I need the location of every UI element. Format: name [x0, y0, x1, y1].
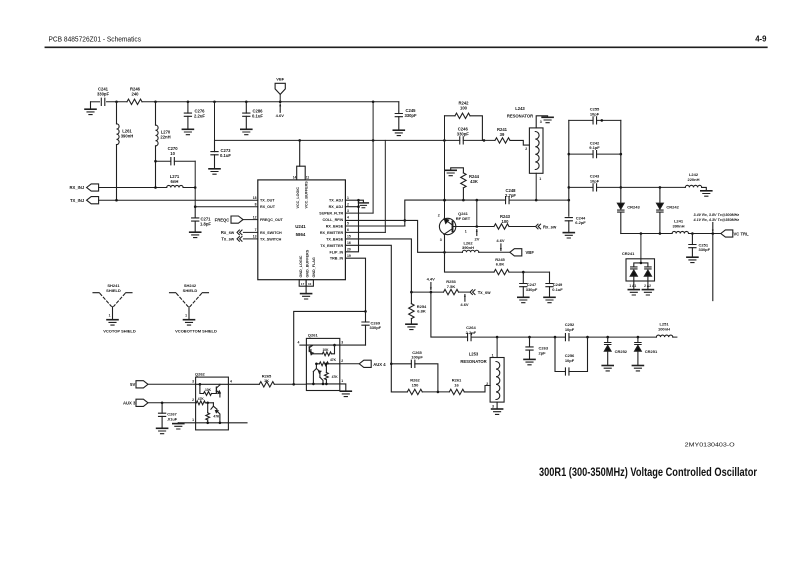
- ground CR241-1: [628, 290, 639, 295]
- annotation voltage arrow: [712, 223, 714, 232]
- svg-text:0.1uF: 0.1uF: [252, 113, 263, 118]
- Q262 internals: [196, 383, 229, 385]
- wire L251 end: [673, 336, 677, 338]
- junction: [298, 139, 301, 142]
- svg-text:43K: 43K: [470, 179, 478, 184]
- junction: [292, 383, 295, 386]
- svg-text:300R1 (300-350MHz) Voltage Con: 300R1 (300-350MHz) Voltage Controlled Os…: [539, 465, 757, 479]
- svg-text:220nH: 220nH: [687, 177, 699, 182]
- junction: [659, 186, 662, 189]
- junction: [279, 101, 282, 104]
- svg-text:2.7pF: 2.7pF: [505, 193, 516, 198]
- svg-text:47K: 47K: [213, 415, 220, 419]
- svg-text:7: 7: [255, 228, 257, 232]
- resistor R243 100: [494, 224, 509, 229]
- svg-text:L243: L243: [515, 106, 525, 111]
- ground C276: [182, 129, 193, 134]
- junction: [404, 219, 407, 222]
- svg-text:3: 3: [440, 238, 442, 242]
- shield SH241: [93, 292, 132, 294]
- svg-text:Rx_sw: Rx_sw: [221, 230, 235, 235]
- ground C245: [393, 130, 404, 135]
- svg-text:3.4V Rx, 3.8V Tx@300MHz: 3.4V Rx, 3.8V Tx@300MHz: [694, 213, 740, 217]
- wire C242 row: [569, 153, 593, 155]
- wire IC pin 6 row: [345, 231, 385, 233]
- resistor R244 43K: [462, 188, 464, 200]
- capacitor C252 10pF: [565, 334, 569, 341]
- wire Q241 collector row: [456, 226, 494, 228]
- inductor L262 390nH: [462, 250, 478, 252]
- wire top rail to C245: [142, 101, 399, 103]
- svg-text:10pF: 10pF: [565, 358, 575, 363]
- ground SH241: [107, 320, 118, 325]
- svg-text:TX_INJ: TX_INJ: [70, 198, 85, 203]
- svg-text:10pF: 10pF: [590, 111, 600, 116]
- ground R244: [445, 170, 456, 175]
- svg-text:5V: 5V: [130, 382, 135, 387]
- svg-text:6.8K: 6.8K: [417, 309, 426, 314]
- capacitor C256 10pF: [565, 368, 569, 375]
- connector AUX 3: [136, 399, 148, 406]
- wire: [569, 336, 656, 338]
- header rule: [45, 46, 766, 48]
- junction: [245, 101, 248, 104]
- wire SUPER_FLTR pin 3 row: [345, 212, 373, 214]
- resonator L253 coil: [496, 362, 500, 400]
- junction: [443, 199, 446, 202]
- junction: [364, 310, 367, 313]
- svg-text:1: 1: [192, 418, 194, 422]
- svg-text:330pF: 330pF: [457, 131, 470, 136]
- svg-text:GND_FLAG: GND_FLAG: [312, 257, 316, 277]
- svg-text:330pF: 330pF: [699, 247, 711, 252]
- capacitor C286 plates: [243, 113, 250, 116]
- wire IC pins 1,2,20 ground tie: [345, 199, 358, 201]
- resistor R242 100 (top arm): [445, 115, 456, 117]
- inductor L242 220nH: [685, 185, 701, 187]
- wire Q261 pin 1 to ground: [340, 384, 346, 391]
- svg-text:GND_BUFFERS: GND_BUFFERS: [305, 249, 309, 277]
- wire R241 to resonator pin 2: [510, 140, 529, 145]
- IC bottom ground pins: [299, 280, 306, 287]
- svg-text:1K: 1K: [264, 378, 269, 383]
- wire COLL_RFIN pin 4 row: [345, 220, 444, 252]
- svg-text:2pF: 2pF: [539, 351, 547, 356]
- capacitor C265 100pF: [411, 360, 415, 367]
- connector Tx_sw chevron: [237, 237, 242, 242]
- resistor R246 240: [127, 99, 142, 104]
- capacitor C245 330pF: [398, 102, 400, 114]
- capacitor C244 6.2pF: [565, 218, 572, 221]
- junction: [443, 139, 446, 142]
- svg-text:47K: 47K: [198, 397, 205, 401]
- inductor L271 6nH coil: [167, 185, 183, 187]
- wire VBF: [279, 94, 281, 101]
- annotation 4.4V arrow: [430, 283, 432, 290]
- wire VCC riser to IC: [299, 140, 301, 166]
- wire C269 to Q261 pin 3: [340, 344, 366, 346]
- svg-text:330pF: 330pF: [526, 287, 538, 292]
- wire: [597, 186, 686, 188]
- wire FREQC_OUT to IC pin 12: [243, 219, 258, 221]
- junction: [357, 205, 360, 208]
- resistor R253 7.5K: [444, 289, 459, 294]
- junction: [659, 232, 662, 235]
- svg-text:SHIELD: SHIELD: [183, 288, 198, 293]
- svg-text:COLL_RFIN: COLL_RFIN: [322, 218, 343, 222]
- junction: [637, 336, 640, 339]
- diode CR242: [659, 187, 661, 203]
- wire: [459, 291, 470, 293]
- wire C270 row: [156, 160, 171, 162]
- svg-text:1: 1: [109, 314, 111, 318]
- svg-text:18: 18: [253, 196, 257, 200]
- svg-text:Tx_sw: Tx_sw: [478, 290, 492, 295]
- svg-text:6: 6: [347, 228, 349, 232]
- svg-text:2.2uF: 2.2uF: [194, 113, 205, 118]
- wire TX_BASE pin 15 row: [345, 239, 411, 292]
- connector VC TRL: [721, 230, 733, 237]
- Q261 47K vertical: [325, 364, 327, 373]
- wire 5V to Q262 pin 3: [148, 383, 196, 385]
- svg-text:4: 4: [347, 215, 349, 219]
- svg-text:390nH: 390nH: [672, 223, 684, 228]
- svg-text:U241: U241: [295, 224, 306, 229]
- junction: [115, 101, 118, 104]
- junction: [206, 402, 209, 405]
- svg-text:4: 4: [230, 380, 232, 384]
- wire AUX3 to Q262 pin 2: [148, 402, 196, 404]
- junction: [430, 291, 433, 294]
- diode CR251: [637, 337, 639, 342]
- capacitor C263 2pF: [529, 337, 531, 347]
- svg-text:100nH: 100nH: [658, 326, 670, 331]
- capacitor C267 .01uF: [161, 403, 163, 413]
- svg-text:SH241: SH241: [107, 283, 120, 288]
- transistor Q241 RF DET: [439, 218, 455, 234]
- connector FREQC: [231, 216, 243, 223]
- svg-text:3: 3: [192, 380, 194, 384]
- svg-text:FREQC: FREQC: [215, 217, 230, 222]
- ground C271: [190, 232, 201, 237]
- resistor R254 zigzag: [409, 304, 414, 319]
- ground IC adj pins: [358, 203, 368, 208]
- wire: [422, 391, 449, 393]
- resistor R241 39: [495, 138, 510, 143]
- wire RX_BASE pin 5 row: [345, 225, 404, 227]
- diode CR252 varactor: [605, 343, 611, 345]
- svg-text:L253: L253: [469, 352, 479, 357]
- svg-text:6.8K: 6.8K: [496, 262, 505, 267]
- junction: [462, 199, 465, 202]
- connector Rx_sw chevron (right): [536, 224, 541, 229]
- ground L253 pin 3: [492, 409, 503, 414]
- svg-text:16: 16: [347, 241, 351, 245]
- svg-text:12: 12: [253, 215, 257, 219]
- svg-text:4.4V: 4.4V: [427, 276, 436, 281]
- svg-text:10K: 10K: [322, 348, 329, 352]
- connector VBF (top): [275, 83, 285, 94]
- svg-text:240: 240: [132, 91, 140, 96]
- svg-text:4.6V: 4.6V: [460, 302, 469, 307]
- capacitor C273 0.1uF: [214, 140, 216, 151]
- connector Tx_sw chevron (right): [470, 290, 475, 295]
- svg-text:150: 150: [412, 382, 419, 387]
- svg-text:2MY0130403-O: 2MY0130403-O: [685, 443, 736, 449]
- svg-text:2: 2: [192, 398, 194, 402]
- wire: [509, 199, 569, 201]
- svg-text:22nH: 22nH: [160, 135, 170, 140]
- svg-text:390nH: 390nH: [121, 134, 134, 139]
- wire VC TRL row: [621, 233, 672, 235]
- connector 5V: [136, 381, 148, 388]
- svg-text:VBF: VBF: [276, 77, 285, 82]
- wire C273 riser: [214, 102, 216, 141]
- wire top rail: [91, 101, 100, 103]
- svg-text:.01uF: .01uF: [167, 416, 178, 421]
- resistor R262 150: [407, 389, 422, 394]
- svg-text:4-9: 4-9: [755, 34, 767, 43]
- svg-text:AUX 3: AUX 3: [123, 401, 136, 406]
- junction: [161, 402, 164, 405]
- svg-text:PCB 8485726Z01 - Schematics: PCB 8485726Z01 - Schematics: [49, 34, 142, 43]
- junction: [154, 101, 157, 104]
- svg-text:39: 39: [500, 132, 505, 137]
- capacitor C249 0.1uF: [549, 272, 551, 283]
- svg-text:TRB_IN: TRB_IN: [330, 257, 344, 261]
- ground C273: [209, 169, 220, 174]
- wire Q261 pin2 to AUX4: [340, 363, 359, 365]
- svg-text:47K: 47K: [332, 375, 339, 379]
- wire L253 pin 1: [496, 337, 498, 357]
- wire Q241 pin 3 emitter: [445, 235, 495, 273]
- Q262 bottom row: [178, 422, 228, 424]
- svg-text:3: 3: [492, 405, 494, 409]
- svg-text:RX_SWITCH: RX_SWITCH: [260, 231, 282, 235]
- wire: [107, 101, 127, 103]
- junction: [496, 336, 499, 339]
- junction: [357, 199, 360, 202]
- svg-text:VBF: VBF: [526, 250, 535, 255]
- svg-text:7.5K: 7.5K: [447, 284, 456, 289]
- svg-text:1: 1: [492, 353, 494, 357]
- svg-text:2: 2: [525, 147, 527, 151]
- junction: [568, 153, 571, 156]
- capacitor C242 9.1pF: [593, 151, 597, 158]
- svg-text:RX_ADJ: RX_ADJ: [329, 205, 344, 209]
- capacitor C249 plates: [546, 284, 553, 287]
- ground C286: [241, 129, 252, 134]
- wire vertical to RX_OUT: [194, 161, 196, 207]
- junction: [476, 225, 479, 228]
- wire: [183, 187, 195, 189]
- svg-text:1: 1: [539, 177, 541, 181]
- junction: [372, 139, 375, 142]
- wire C265 top arm: [391, 363, 411, 365]
- svg-text:10: 10: [308, 282, 312, 286]
- capacitor C248 2.7pF: [506, 197, 510, 204]
- svg-text:RF DET: RF DET: [456, 216, 471, 221]
- junction: [154, 186, 157, 189]
- ground C244: [563, 233, 574, 238]
- svg-text:5864: 5864: [296, 232, 306, 237]
- svg-text:2.2pF: 2.2pF: [466, 330, 477, 335]
- inductor L251 100nH: [656, 335, 672, 337]
- svg-text:16: 16: [454, 382, 459, 387]
- junction: [187, 101, 190, 104]
- inductor L241 390nH: [672, 231, 688, 233]
- ground CR252: [602, 366, 613, 371]
- junction: [535, 199, 538, 202]
- svg-text:VCOBOTTOM SHIELD: VCOBOTTOM SHIELD: [175, 329, 217, 334]
- resistor R245 6.8K: [494, 269, 509, 274]
- junction: [568, 186, 571, 189]
- svg-text:3: 3: [347, 209, 349, 213]
- junction: [322, 383, 325, 386]
- transistor array Q261: [306, 338, 339, 390]
- svg-text:Q262: Q262: [195, 371, 206, 376]
- svg-text:1: 1: [185, 314, 187, 318]
- connector VBF (mid): [510, 249, 522, 256]
- ground C267: [157, 428, 168, 433]
- connector RX_INJ: [87, 184, 99, 191]
- capacitor C271 1.8pF: [194, 207, 196, 218]
- svg-text:CR252: CR252: [615, 349, 628, 354]
- capacitor C246 330pF: [460, 137, 464, 144]
- svg-text:100: 100: [502, 219, 510, 224]
- capacitor C273 plates: [211, 152, 218, 155]
- wire TX row to IC pin 18: [99, 199, 258, 201]
- wire RX_SWITCH to IC pin 7: [243, 231, 257, 233]
- wire TRB_IN pin 19 row: [345, 258, 365, 311]
- svg-text:6nH: 6nH: [171, 179, 179, 184]
- resistor R242 zigzag: [455, 113, 470, 118]
- junction: [437, 391, 440, 394]
- wire: [509, 226, 535, 228]
- wire cap stack right rail: [620, 120, 622, 187]
- svg-text:1: 1: [465, 229, 467, 233]
- svg-text:5: 5: [347, 222, 349, 226]
- capacitor C251 plates: [689, 245, 696, 248]
- svg-text:0.1uF: 0.1uF: [220, 153, 231, 158]
- inductor L270 22nH: [155, 102, 157, 125]
- ground (top-left): [85, 109, 96, 114]
- capacitor C270 10: [171, 158, 175, 165]
- resistor R244 zigzag: [461, 173, 466, 188]
- junction: [691, 232, 694, 235]
- inductor L261 390nH: [116, 102, 118, 124]
- capacitor C267 plates: [159, 413, 166, 416]
- wire R242 loop left / Q241 top lead: [444, 116, 446, 219]
- svg-text:RX_BASE: RX_BASE: [326, 225, 344, 229]
- wire: [597, 119, 621, 121]
- svg-text:10pF: 10pF: [565, 327, 575, 332]
- junction: [325, 363, 328, 366]
- ground C249: [544, 297, 555, 302]
- junction: [206, 422, 209, 425]
- svg-text:TX_EMITTER: TX_EMITTER: [320, 244, 343, 248]
- wire R265 to Q261: [274, 383, 306, 385]
- capacitor C276 2.2uF: [187, 102, 189, 113]
- junction: [620, 153, 623, 156]
- wire Q262 pin 1 stub out: [228, 422, 247, 424]
- svg-text:19: 19: [347, 254, 351, 258]
- svg-text:6.2pF: 6.2pF: [575, 220, 586, 225]
- svg-text:FLIP_IN: FLIP_IN: [329, 250, 343, 254]
- svg-text:1.8pF: 1.8pF: [200, 221, 211, 226]
- ground CR251: [632, 366, 643, 371]
- svg-text:9.1pF: 9.1pF: [589, 145, 600, 150]
- svg-text:17: 17: [301, 282, 305, 286]
- junction: [154, 160, 157, 163]
- wire C243 row: [569, 186, 593, 188]
- capacitor C247 330pF: [522, 272, 524, 283]
- svg-text:4.6V: 4.6V: [276, 113, 285, 118]
- svg-text:14: 14: [293, 175, 297, 179]
- wire TX_SWITCH to IC pin 13: [243, 238, 257, 240]
- ground R254: [406, 324, 417, 329]
- svg-text:0.1uF: 0.1uF: [552, 287, 563, 292]
- diode CR243: [620, 187, 622, 203]
- junction: [476, 199, 479, 202]
- wire resonator row: [471, 336, 565, 338]
- svg-text:Tx_sw: Tx_sw: [221, 237, 235, 242]
- svg-text:VCOTOP SHIELD: VCOTOP SHIELD: [103, 329, 136, 334]
- annotation 4.6V arrow: [500, 244, 502, 251]
- resonator L243 coil: [535, 132, 539, 170]
- ground Q261 pin1: [340, 391, 351, 396]
- junction: [601, 119, 604, 122]
- svg-text:10pF: 10pF: [590, 178, 600, 183]
- capacitor C269 330pF: [365, 311, 367, 322]
- svg-text:8: 8: [255, 202, 257, 206]
- shield SH242: [170, 292, 209, 294]
- wire RX_OUT to IC pin 8: [195, 206, 258, 208]
- svg-text:TX_ADJ: TX_ADJ: [329, 199, 343, 203]
- svg-text:Rx_sw: Rx_sw: [543, 224, 557, 229]
- svg-text:CR243: CR243: [627, 205, 640, 210]
- junction: [483, 139, 486, 142]
- svg-text:330pF: 330pF: [370, 325, 382, 330]
- svg-text:10K: 10K: [205, 388, 212, 392]
- wire riser to main node: [476, 200, 478, 226]
- svg-text:330pF: 330pF: [404, 113, 417, 118]
- wire Q262 pin 4 out: [228, 383, 259, 385]
- junction: [443, 199, 446, 202]
- ground CR241-2: [642, 290, 653, 295]
- svg-text:CR251: CR251: [645, 349, 658, 354]
- capacitor C243 10pF: [593, 184, 597, 191]
- connector TX_INJ: [87, 197, 99, 204]
- svg-text:2V: 2V: [475, 237, 480, 242]
- capacitor C269 plates: [362, 322, 369, 325]
- junction: [606, 336, 609, 339]
- wire stub below VC TRL row: [712, 235, 714, 300]
- svg-text:2: 2: [341, 359, 343, 363]
- junction: [568, 199, 571, 202]
- svg-text:VCC_LOGIC: VCC_LOGIC: [296, 187, 300, 209]
- wire RX row: [99, 187, 167, 189]
- junction: [312, 383, 315, 386]
- svg-text:330pF: 330pF: [97, 91, 110, 96]
- wire: [597, 153, 621, 155]
- svg-text:RESONATOR: RESONATOR: [460, 359, 486, 364]
- junction: [522, 271, 525, 274]
- annotation 4.6V arrow: [279, 104, 281, 112]
- diode CR243 varactor: [617, 203, 624, 209]
- wire riser pin6: [384, 140, 386, 232]
- wire L242 to ground: [702, 187, 707, 190]
